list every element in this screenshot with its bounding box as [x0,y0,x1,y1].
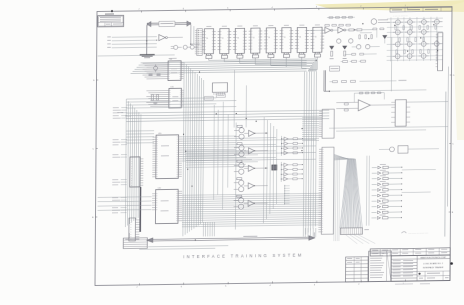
IC U4 DIP [251,28,260,53]
svg-text:U30: U30 [158,133,161,135]
left signal name label clusters [113,106,119,109]
transistor Q15 [395,54,400,59]
wire bus below DIPs to left [141,61,307,63]
crystal Y1 [154,66,158,70]
buffer U13 [249,130,255,136]
connector J3 [130,157,140,187]
bus arrow TO J1 [147,22,191,25]
transistor Q17 [421,53,426,58]
diode CR21 [343,46,347,49]
border zone ticks bottom [138,283,140,285]
nand gate U27 [183,45,187,49]
wire bus left drop [146,25,148,55]
nand gate U26 [174,45,178,49]
wire long vertical x392 [390,37,392,91]
resistor pack RP8 [314,54,320,57]
resistor R2 [156,95,158,101]
wire bus horizontals mid [126,110,329,113]
resistor R13 [372,183,377,185]
svg-text:INTERFACE TRAINER: INTERFACE TRAINER [423,266,444,269]
buffer U15 [248,165,254,171]
connector J5 tall [321,147,334,234]
top analog row [332,81,337,83]
net label boxes [204,96,213,100]
border zone ticks top [140,11,142,13]
connector J8 column [129,218,136,241]
timer U24 circle [371,19,377,25]
connector J2 pin column [197,29,203,56]
svg-text:U9: U9 [170,59,172,61]
ground symbol 2 [330,58,334,60]
wire bus lower horizontals 2 [186,149,246,152]
wire verticals center mid [213,105,216,200]
IC U6 DIP [282,28,291,53]
svg-text:U10: U10 [170,86,173,88]
resistor R24 [331,51,333,56]
svg-text:U12: U12 [158,188,161,190]
transistor Q1 block [272,165,277,170]
resistor R16 [372,200,377,202]
title block number row [417,270,450,272]
svg-text:LOGIC BOARD NO. 2: LOGIC BOARD NO. 2 [423,262,444,265]
wire verticals near right border [445,92,446,237]
wire verticals left of fan [333,158,336,241]
ground [153,102,157,104]
resistor R14 [372,189,377,191]
resistor R22 [349,29,354,31]
transistor Q50 circuit [390,147,395,152]
resistor R3 [237,125,242,127]
inverter U25 [159,35,166,41]
junction dots scattered [190,44,191,45]
transistor Q16 [407,54,412,59]
buffer U17 [248,200,254,206]
wire rows to gate cluster [112,36,157,39]
bus vertical pair right of DIPs [323,70,325,91]
IC U12 tall [155,189,178,223]
ground bus bar lower [139,187,141,232]
junction dots gate cluster [156,40,157,41]
wire bus DIP outputs nested elbows [208,59,210,61]
wire vertical pair right of bus [193,26,195,44]
resistor R23 [357,29,362,31]
transistor Q9 [407,30,412,35]
resistor pack RP2 [221,55,227,58]
wire bus lower horizontals [182,193,322,195]
connector J4 [322,109,334,138]
harness box label [364,228,369,231]
transistor Q12 [407,42,412,47]
wire bus U30 outputs [182,135,236,138]
resistor R11 [372,172,377,174]
buffer cluster U19 [280,162,282,182]
svg-text:74: 74 [253,37,255,39]
nand gate U28 [190,45,194,49]
svg-text:74: 74 [299,37,301,39]
analog cluster detail [329,17,333,19]
resistor R18 [372,211,377,213]
svg-text:~ ~~~ ~~ ~~~~ ~~: ~ ~~~ ~~ ~~~~ ~~ [393,16,408,18]
wire elbows into bottom bus [202,222,204,237]
connector P1 harness box [340,228,362,235]
buffer U16 [248,183,254,189]
transistor Q6 [421,19,426,24]
IC U8 DIP [313,27,322,52]
wire vertical bundle u168 [262,117,265,223]
inverter U22 [325,27,331,33]
transistor Q36 pair [239,180,244,185]
resistor R25 [344,51,346,56]
label box bus [330,66,340,71]
resistor pack RP6 [283,54,289,57]
transistor Q32 pair [239,145,244,150]
IC U11 [212,83,227,93]
net labels right of U30 [117,111,123,114]
bus arrow bottom [151,237,310,239]
wire bus bottom band [148,246,228,247]
capacitor C1 [149,73,153,75]
IC U7 DIP [297,27,306,52]
resistor pack RP7 [299,54,305,57]
wire verticals near right border [445,92,446,237]
transistor Q3 [349,39,353,43]
resistor R15 [372,195,377,197]
revision table left [345,257,368,282]
transistor Q38 pair [238,198,243,203]
IC U30 tall [156,135,179,179]
resistor pack RP4 [252,55,258,58]
wire bus verticals center [233,70,235,128]
transistor Q14 [434,41,439,46]
transistor Q7 [434,19,439,24]
wire net transistor grid [387,17,443,20]
wires left border to U12 [98,196,152,199]
relay K1 [395,100,406,127]
microfilm note below border [395,284,413,285]
svg-text:GIANT ELECTRONICS CORP: GIANT ELECTRONICS CORP [420,256,446,259]
parts list box [368,251,391,282]
resistor row R30 [325,24,330,26]
IC U1 DIP [204,29,213,54]
wire vertical pair right of fan [365,156,368,226]
transistor Q13 [421,41,426,46]
wire long rows right [402,169,436,171]
scanned page yellow edge top right [315,0,464,12]
wire bus right drop [190,24,192,44]
notes box [98,15,124,27]
wire vertical feed gate column [234,123,237,230]
resistor pack RP5 [268,55,274,58]
buffer U14 [248,148,254,154]
drawing sheet border frame [95,7,452,286]
resistor R4 [237,143,242,145]
resistor R12 [372,178,377,180]
resistor R10 [372,167,377,169]
transistor Q2 [337,39,341,43]
zone D marker dot [450,262,453,265]
wire net analog to relay [410,101,448,104]
transistor Q5 [407,20,412,25]
IC U10 [169,88,182,108]
svg-text:74: 74 [237,37,239,39]
connector J7 box [123,238,147,249]
harness exit wires [345,234,357,244]
ground bar GND1 [140,54,155,56]
wire horizontal upper left [98,55,175,56]
IC U5 DIP [266,28,275,53]
wire bus verticals mid right [303,72,304,237]
svg-text:~~~ ~~~~ ~~ ~~~~~ ~~~: ~~~ ~~~~ ~~ ~~~~~ ~~~ [408,233,428,235]
buffer cluster U18 [280,136,282,156]
revision strip top right [390,7,452,12]
resistor sip column [284,185,286,205]
svg-text:74: 74 [284,37,286,39]
svg-text:74: 74 [315,36,317,38]
junction dot on top border [111,10,113,12]
transistor Q30 pair [239,128,244,133]
connector J6 vertical strip [438,33,443,71]
diode CR20 [330,46,334,49]
svg-text:74: 74 [206,38,208,40]
resistor R6 [237,178,242,180]
IC U9 [168,61,181,81]
capacitor stack C10 [344,103,348,105]
labels above U9 [169,57,177,60]
wire bus into J4/J5 [302,116,319,118]
transistor Q8 [395,30,400,35]
resistor ladder top right [395,26,397,30]
transistor Q11 [395,42,400,47]
resistor pack RP3 [237,55,243,58]
wire net top analog [307,29,325,31]
IC U3 DIP [235,28,244,53]
transistor Q4 [395,20,400,25]
wire fan harness [340,159,348,228]
IC U2 DIP [220,28,229,53]
transistor Q10 [421,29,426,34]
resistor R19 [371,217,376,219]
note flag [401,232,406,234]
bus bottom risers [128,233,130,238]
title block main [391,255,450,281]
junction dots right grid [394,25,395,26]
resistor R7 [237,195,242,197]
resistor pack RP1 [206,55,212,58]
wire bus vertical center-left [183,62,184,236]
resistor R5 [237,160,242,162]
capacitor C2 [157,73,161,75]
resistor ladder above op-amp [354,92,384,94]
border zone ticks left [96,79,98,81]
title block header strip [370,248,450,256]
svg-text:74: 74 [222,38,224,40]
resistor R17 [372,206,377,208]
wire bus vertical left [124,99,127,227]
wire fan top feeds [334,154,348,159]
resistor R1 [151,95,153,101]
transistor Q34 pair [239,163,244,168]
svg-text:74: 74 [268,37,270,39]
border zone ticks right [450,74,452,76]
inverter U23 [338,27,344,33]
wire elbow long right [329,90,426,91]
components mid band right [343,60,348,62]
op-amp U20 [358,100,370,111]
